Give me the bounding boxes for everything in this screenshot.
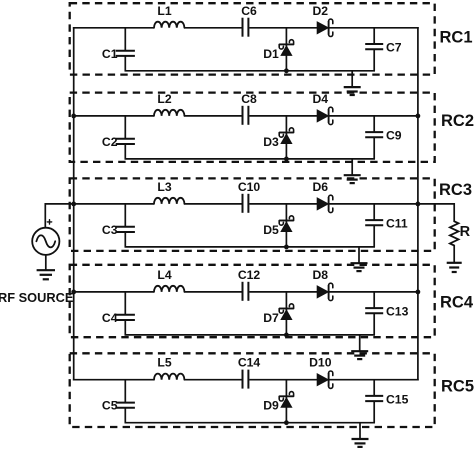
diode D8 (series schottky) (317, 286, 328, 298)
inductor L5 (154, 374, 184, 380)
capacitor C8 (series) (242, 106, 244, 125)
capacitor C14 (series) (242, 370, 244, 389)
wire top rail row 4 right segment (329, 291, 418, 293)
svg-text:C5: C5 (102, 399, 118, 413)
wire top rail row 4 segment C-series to D-series (249, 291, 317, 293)
junction node D5 anode / bottom rail (284, 245, 289, 250)
RF source V1 (ac source circle) (32, 228, 59, 255)
svg-text:L2: L2 (157, 92, 171, 106)
svg-text:D9: D9 (263, 399, 279, 413)
wire RF source to left bus (45, 204, 73, 228)
ground row 2 (351, 159, 353, 175)
svg-text:D3: D3 (263, 135, 279, 149)
svg-text:RC2: RC2 (441, 112, 474, 130)
diode D10 (series schottky) (317, 374, 328, 386)
junction node D7 anode / bottom rail (284, 333, 289, 338)
wire top rail row 5 segment C-series to D-series (249, 379, 317, 381)
capacitor C15 (shunt right) (373, 380, 375, 396)
dashed box RC3 section (70, 178, 435, 251)
wire bottom rail row 1 (125, 70, 376, 72)
ground row 5 (359, 423, 361, 439)
svg-text:C3: C3 (102, 223, 118, 237)
ground row 3 (358, 247, 360, 263)
diode D2 (series schottky) (317, 22, 328, 34)
dashed box RC2 section (70, 93, 435, 162)
svg-text:L5: L5 (157, 356, 171, 370)
svg-text:C14: C14 (238, 356, 261, 370)
wire top rail row 2 middle segment (184, 115, 241, 117)
capacitor C2 (shunt left) (124, 116, 126, 138)
svg-text:C13: C13 (386, 305, 409, 319)
wire top rail row 1 left segment (73, 27, 154, 29)
svg-text:C7: C7 (386, 41, 402, 55)
wire top rail row 1 right segment (329, 27, 418, 29)
wire top rail row 5 left segment (73, 379, 154, 381)
svg-text:C9: C9 (386, 129, 402, 143)
dashed box RC1 section (70, 3, 435, 74)
svg-text:D7: D7 (263, 311, 279, 325)
svg-text:D10: D10 (309, 356, 332, 370)
resistor R (load) (450, 221, 459, 245)
capacitor C1 (shunt left) (124, 28, 126, 50)
diode D3 (shunt schottky) (285, 116, 287, 159)
dashed box RC4 section (70, 265, 435, 337)
wire top rail row 1 segment C-series to D-series (249, 27, 317, 29)
svg-text:D8: D8 (313, 268, 329, 282)
junction node right bus row 3 (416, 202, 421, 207)
junction node left bus row 4 (71, 290, 76, 295)
svg-text:C6: C6 (241, 4, 257, 18)
plus polarity mark (47, 220, 51, 224)
capacitor C12 (series) (242, 282, 244, 301)
wire top rail row 2 left segment (73, 115, 154, 117)
diode D6 (series schottky) (317, 198, 328, 210)
svg-text:C11: C11 (386, 217, 408, 231)
svg-text:R: R (460, 224, 471, 240)
wire top rail row 5 right segment (329, 379, 418, 381)
wire RF source to ground (45, 255, 47, 270)
wire top rail row 3 segment C-series to D-series (249, 203, 317, 205)
ground row 1 (351, 71, 353, 87)
svg-text:D2: D2 (313, 4, 329, 18)
diode D9 (shunt schottky) (285, 380, 287, 423)
junction node left bus row 3 (71, 202, 76, 207)
capacitor C4 (shunt left) (124, 292, 126, 314)
junction node D9 anode / bottom rail (284, 420, 289, 425)
junction node D3 anode / bottom rail (284, 157, 289, 162)
junction node left bus row 2 (71, 114, 76, 119)
wire top rail row 3 middle segment (184, 203, 241, 205)
inductor L3 (154, 198, 184, 204)
wire top rail row 5 middle segment (184, 379, 241, 381)
capacitor C5 (shunt left) (124, 380, 126, 402)
wire bottom rail row 4 (125, 334, 376, 336)
capacitor C11 (shunt right) (373, 204, 375, 220)
svg-text:RC3: RC3 (439, 181, 472, 199)
capacitor C3 (shunt left) (124, 204, 126, 226)
ground row 4 (359, 335, 361, 351)
capacitor C6 (series) (242, 18, 244, 37)
svg-text:C10: C10 (238, 180, 261, 194)
dashed box RC5 section (70, 353, 435, 427)
wire top rail row 3 right segment (329, 203, 418, 205)
svg-text:D5: D5 (263, 223, 279, 237)
wire right bus to load (418, 204, 454, 221)
capacitor C13 (shunt right) (373, 292, 375, 308)
inductor L2 (154, 110, 184, 116)
sine wave glyph (36, 235, 55, 247)
svg-text:RC5: RC5 (441, 378, 474, 396)
wire load to ground (453, 246, 455, 263)
ground RF source (37, 269, 55, 271)
junction node D1 anode / bottom rail (284, 68, 289, 73)
svg-text:L3: L3 (157, 180, 171, 194)
svg-text:D1: D1 (263, 47, 279, 61)
diode D5 (shunt schottky) (285, 204, 287, 247)
junction node right bus row 2 (416, 114, 421, 119)
svg-text:L1: L1 (157, 4, 171, 18)
wire right bus (417, 27, 419, 381)
inductor L4 (154, 286, 184, 292)
capacitor C9 (shunt right) (373, 116, 375, 132)
wire top rail row 4 middle segment (184, 291, 241, 293)
wire left bus (73, 27, 75, 381)
svg-text:RC4: RC4 (440, 294, 474, 312)
wire top rail row 2 segment C-series to D-series (249, 115, 317, 117)
wire bottom rail row 5 (125, 422, 376, 424)
wire bottom rail row 2 (125, 158, 376, 160)
ground load (447, 262, 462, 264)
svg-text:C15: C15 (386, 393, 409, 407)
inductor L1 (154, 22, 184, 28)
svg-text:D4: D4 (313, 92, 329, 106)
junction node right bus row 4 (416, 290, 421, 295)
capacitor C7 (shunt right) (373, 28, 375, 44)
svg-text:RC1: RC1 (439, 28, 472, 46)
capacitor C10 (series) (242, 194, 244, 213)
wire top rail row 2 right segment (329, 115, 418, 117)
wire bottom rail row 3 (125, 246, 376, 248)
svg-text:C12: C12 (238, 268, 261, 282)
svg-text:C8: C8 (241, 92, 257, 106)
svg-text:L4: L4 (157, 268, 171, 282)
diode D4 (series schottky) (317, 110, 328, 122)
svg-text:C2: C2 (102, 135, 118, 149)
wire top rail row 3 left segment (73, 203, 154, 205)
diode D1 (shunt schottky) (285, 28, 287, 71)
svg-text:RF SOURCE: RF SOURCE (0, 290, 74, 305)
wire top rail row 1 middle segment (184, 27, 241, 29)
svg-text:C1: C1 (102, 47, 118, 61)
svg-text:C4: C4 (102, 311, 118, 325)
diode D7 (shunt schottky) (285, 292, 287, 335)
wire top rail row 4 left segment (73, 291, 154, 293)
svg-text:D6: D6 (313, 180, 329, 194)
